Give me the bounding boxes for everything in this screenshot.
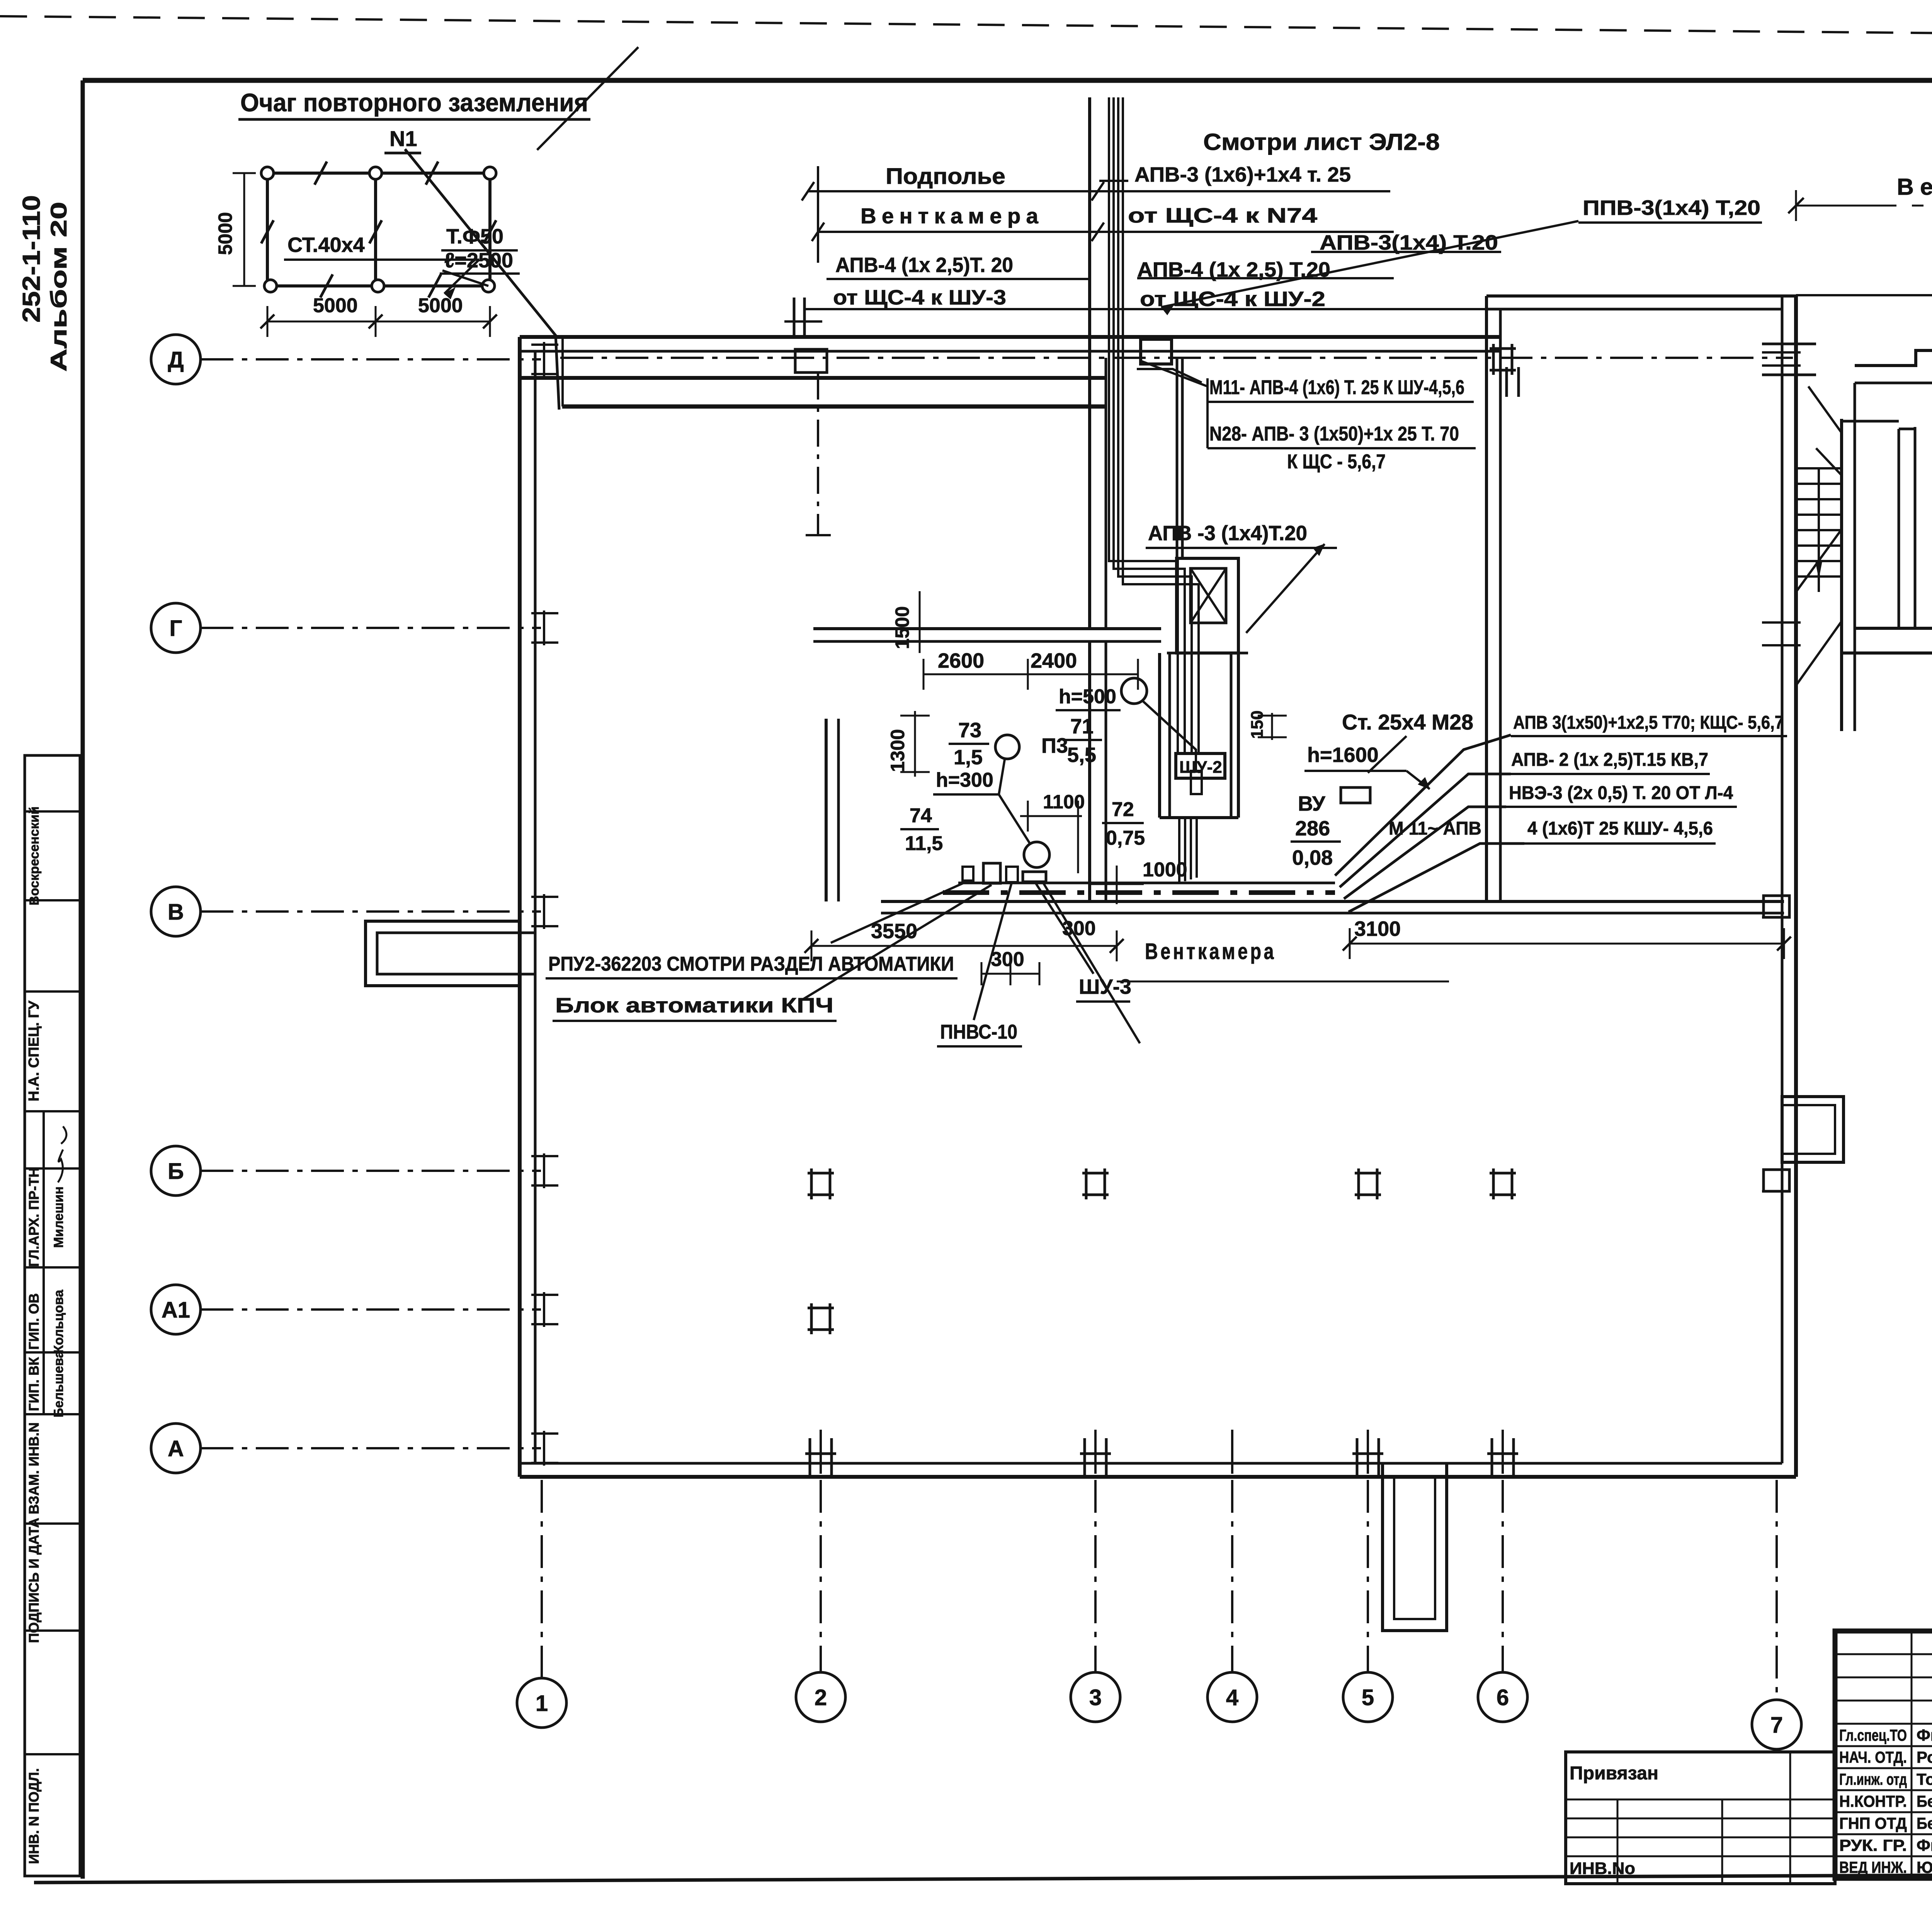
svg-text:3: 3 [1089,1685,1102,1710]
svg-text:Белокурова: Белокурова [1917,1792,1932,1810]
grid line x=1402 [541,1480,543,1678]
svg-text:ШУ-3: ШУ-3 [1079,975,1131,998]
svg-text:300: 300 [991,948,1024,971]
grid line y=3030 [201,1170,541,1172]
vertical dimension 5000 [243,173,245,286]
diagonal feeder bundle to labels [1335,735,1511,876]
leaders to labels [831,881,968,943]
svg-text:Филин: Филин [1917,1726,1932,1744]
centre south wall [881,900,1784,903]
svg-text:Торгашов: Торгашов [1917,1770,1932,1788]
svg-text:НВЭ-3 (2х 0,5) Т. 20 ОТ Л-4: НВЭ-3 (2х 0,5) Т. 20 ОТ Л-4 [1509,783,1733,803]
left margin signatures [58,1126,66,1182]
svg-text:ВЗАМ. ИНВ.N: ВЗАМ. ИНВ.N [26,1422,42,1514]
left margin inner divider [43,1111,45,1414]
left wall inner face [534,351,537,1463]
grid line x=3889 [1502,1480,1504,1672]
right wall outer face [1794,295,1798,1477]
grid axis circle 5 [1343,1672,1393,1722]
svg-text:Д: Д [168,347,184,372]
svg-text:ГЛ.АРХ. ПР-ТН: ГЛ.АРХ. ПР-ТН [26,1167,42,1267]
svg-text:Очаг повторного заземления: Очаг повторного заземления [240,88,588,117]
svg-text:от ЩС-4 к ШУ-3: от ЩС-4 к ШУ-3 [833,286,1006,309]
dim slash ticks [802,182,814,201]
svg-text:РПУ2-362203 СМОТРИ РАЗДЕЛ АВТ: РПУ2-362203 СМОТРИ РАЗДЕЛ АВТОМАТИКИ [548,953,954,975]
stamp thin top rows [1835,1653,1932,1655]
grid line y=1625 [201,627,541,629]
riser bundle lower part with jog [1109,358,1178,753]
bottom dimension line [267,321,490,323]
pit below bottom wall [1383,1463,1447,1631]
grid line x=3540 [1367,1480,1369,1672]
svg-text:6: 6 [1497,1685,1509,1710]
column Д6 [1490,344,1516,375]
grid line y=2359 [201,910,541,913]
top wall inner line [520,350,1500,353]
svg-text:ПОДПИСЬ И ДАТА: ПОДПИСЬ И ДАТА [26,1518,42,1643]
svg-text:Милешин: Милешин [51,1186,66,1248]
room top wall outer [1855,350,1932,366]
feeder underline R2 [1509,773,1710,775]
svg-text:ПНВС-10: ПНВС-10 [940,1021,1017,1043]
door swing leaders [1808,386,1842,433]
svg-text:П3: П3 [1041,734,1068,757]
svg-text:3550: 3550 [871,920,917,943]
room bottom thick wall [1855,627,1932,630]
conductor break slashes [315,162,327,185]
svg-text:1300: 1300 [887,729,908,772]
grid axis circle 7 [1752,1700,1801,1749]
svg-text:Рощин: Рощин [1917,1748,1932,1766]
leader М11 to bundle [1142,361,1207,386]
svg-text:от ЩС-4 к N74: от ЩС-4 к N74 [1128,204,1317,227]
label bracket line [1206,378,1209,448]
svg-text:0,75: 0,75 [1106,827,1145,849]
column at riser/wall crossing [1141,339,1172,364]
stair step [1796,575,1842,578]
frame bottom border [34,1872,1932,1883]
svg-text:Блок автоматики КПЧ: Блок автоматики КПЧ [555,994,833,1017]
svg-text:Воскресенский: Воскресенский [27,806,42,905]
corridor south line [562,405,1106,409]
feeder underline R1 [1511,735,1787,737]
feeder underline R3 [1506,806,1737,808]
svg-text:72: 72 [1112,798,1134,821]
svg-text:5,5: 5,5 [1067,743,1096,767]
ground conductor second line [561,337,564,406]
leader ППВ-3 to riser [1161,221,1578,307]
grid line x=4598 [1776,1480,1778,1700]
grid axis circle 2 [796,1672,845,1722]
svg-text:ГНП ОТД: ГНП ОТД [1839,1814,1907,1832]
bottom wall outer face [520,1475,1796,1479]
svg-text:N28- АПВ- 3 (1х50)+1х 25 Т. 70: N28- АПВ- 3 (1х50)+1х 25 Т. 70 [1209,423,1459,445]
grid line y=930 [201,358,541,361]
duct stub above Д wall [793,298,796,337]
svg-text:h=300: h=300 [936,769,993,791]
svg-text:252-1-110: 252-1-110 [17,195,45,323]
stair rail [1818,468,1820,592]
bottom wall pier [1487,1452,1518,1455]
grid axis circle 6 [1478,1672,1527,1722]
underline АПВ-3 1x4 [1311,251,1501,253]
frame left border [81,80,85,1879]
underline АПВ-3 mid [1146,547,1337,549]
grid axis circle А1 [151,1285,201,1334]
lamp leader [1142,700,1196,773]
bottom wall pier [1352,1452,1383,1455]
grounding title underline [238,118,590,121]
west wall of right venkamera [1485,296,1488,901]
svg-text:Ст. 25х4 М28: Ст. 25х4 М28 [1342,710,1473,734]
left annex room walls [366,921,520,986]
svg-text:Привязан: Привязан [1570,1763,1658,1784]
piers on right-block left wall [1762,351,1801,354]
column grid Б [808,1168,834,1199]
underline ППВ-3 [1578,221,1762,224]
svg-text:М11- АПВ-4 (1х6) Т. 25 К ШУ-4: М11- АПВ-4 (1х6) Т. 25 К ШУ-4,5,6 [1209,376,1464,399]
СТ riser stub [1505,367,1508,397]
svg-text:74: 74 [910,804,932,827]
stair step [1796,544,1842,547]
T.F50 leader [442,270,488,286]
svg-text:Н.КОНТР.: Н.КОНТР. [1839,1792,1907,1810]
stair step [1796,529,1842,531]
central wall lower continuation [1088,641,1091,901]
small device under lamp [1191,771,1202,794]
svg-text:73: 73 [958,719,981,742]
svg-text:N1: N1 [389,126,417,151]
top right venkamera dimension [1796,205,1932,207]
column grid А1 [808,1303,834,1334]
underline АПВ-4 right [1137,277,1394,279]
svg-text:Гл.спец.ТО: Гл.спец.ТО [1839,1726,1907,1744]
svg-text:Кольцова: Кольцова [51,1289,66,1353]
grid stub above wall [1231,1430,1233,1474]
svg-text:11,5: 11,5 [905,832,943,855]
svg-text:h=500: h=500 [1059,685,1116,708]
stair lower break line [1796,621,1842,685]
long underline row ШУ [804,308,1486,310]
ВУ fraction bar [1291,840,1341,843]
grid stub above wall [1367,1430,1369,1474]
svg-text:7: 7 [1770,1713,1783,1738]
ground conductor diagonal to building corner [405,149,559,410]
frame top border [83,78,1932,83]
leader from Ст.25х4 [1368,736,1406,773]
svg-text:4 (1х6)Т 25 КШУ- 4,5,6: 4 (1х6)Т 25 КШУ- 4,5,6 [1527,818,1713,839]
elevator shaft [1177,558,1238,653]
upper right room walls [1486,294,1796,298]
grid stub above wall [820,1430,822,1474]
feeder underline R4 [1524,842,1716,845]
svg-text:Подполье: Подполье [886,164,1005,189]
column grid Б [1082,1168,1109,1199]
grid stub above wall [1094,1430,1097,1474]
main cable bus dash-dot thick [943,890,1335,895]
svg-text:ИНВ.No: ИНВ.No [1570,1859,1635,1878]
stair step [1796,514,1842,516]
svg-text:5: 5 [1362,1685,1374,1710]
svg-text:Бельшева: Бельшева [51,1350,66,1418]
stamp name rows [1835,1745,1932,1747]
svg-text:2600: 2600 [938,649,984,672]
dim line below venkamera [1117,981,1449,983]
svg-text:Венткамера: Венткамера [1145,939,1276,964]
room top wall inner [1855,382,1932,384]
wall under elevator block [813,627,1161,630]
grounding loop wires [267,172,490,175]
svg-text:2400: 2400 [1031,649,1077,672]
grid line y=3389 [201,1308,541,1311]
left margin stamp table [25,755,80,1876]
svg-text:В: В [168,900,184,925]
svg-text:Г: Г [170,616,182,641]
top wall inner face [520,376,1106,380]
cable bundle down from ШУ-2 [1178,818,1180,883]
right block top line [1796,294,1932,296]
column grid Б [1490,1168,1516,1199]
svg-text:4: 4 [1226,1685,1238,1710]
svg-text:1,5: 1,5 [954,746,983,769]
underline М11 [1207,401,1474,403]
svg-text:3100: 3100 [1354,917,1401,940]
svg-text:ГИП. ОВ: ГИП. ОВ [26,1293,42,1350]
bundle tick [1099,180,1128,182]
svg-text:Смотри лист ЭЛ2-8: Смотри лист ЭЛ2-8 [1203,129,1440,155]
привязан box [1566,1752,1835,1884]
svg-text:Белокурова: Белокурова [1917,1814,1932,1832]
svg-text:ППВ-3(1х4) Т,20: ППВ-3(1х4) Т,20 [1583,196,1760,219]
svg-text:1500: 1500 [891,606,913,649]
bottom wall pier [805,1452,836,1455]
svg-text:ИНВ. N ПОДЛ.: ИНВ. N ПОДЛ. [26,1768,42,1864]
central vertical wall [1088,97,1091,629]
stair step [1796,560,1842,562]
svg-text:Венткамера: Венткамера [861,204,1044,228]
svg-text:1000: 1000 [1143,859,1187,881]
top wall outer face [520,335,1500,339]
sheet top perforation edge [0,16,1932,40]
svg-text:h=1600: h=1600 [1307,743,1379,767]
pier marks on right wall [1764,896,1789,917]
arrow to АПВ-3 mid label [1246,544,1325,633]
grid axis circle 3 [1071,1672,1120,1722]
svg-text:СТ.40х4: СТ.40х4 [287,233,365,257]
svg-text:А: А [168,1436,184,1461]
ground electrode nodes [261,167,274,179]
svg-text:Филатова: Филатова [1917,1836,1932,1854]
grid axis circle Б [151,1146,201,1196]
branch wires to upper-right room [1137,369,1202,383]
grid Д dash-dot inside plan [560,357,1793,359]
grid line x=2124 [820,1480,822,1672]
elevator shaft upper wall [1176,358,1179,558]
left wall outer face [518,337,522,1477]
wall box on right wall [1782,1097,1844,1162]
cable run line [958,882,1335,884]
CT40x4 leader line [284,259,479,261]
svg-text:1: 1 [536,1691,548,1716]
svg-text:5000: 5000 [313,294,358,317]
automation equipment boxes [963,867,973,881]
grid line ticks at wall [543,342,545,377]
stair step [1796,498,1842,500]
riser wire bundle from floor above [1108,97,1110,358]
dim 2600/2400 [923,673,1138,675]
svg-text:Альбом 20: Альбом 20 [46,202,71,372]
column at Д2 [795,349,827,372]
grid axis circle 1 [517,1678,566,1728]
grid axis circle Г [151,603,201,653]
svg-text:Н.А. СПЕЦ. ГУ: Н.А. СПЕЦ. ГУ [26,1000,42,1101]
stray diagonal line [537,47,638,150]
dimension extension lines for Подполье/Венткамера [817,166,819,263]
grid axis circle А [151,1423,201,1473]
svg-text:К ЩС - 5,6,7: К ЩС - 5,6,7 [1287,451,1386,473]
stair break line [1796,529,1842,592]
svg-text:Юдина: Юдина [1917,1858,1932,1876]
svg-text:5000: 5000 [214,212,236,255]
grid 2 interior stub [817,372,819,535]
svg-text:АПВ 3(1х50)+1х2,5 Т70; КЩС- 5,: АПВ 3(1х50)+1х2,5 Т70; КЩС- 5,6,7 [1513,713,1784,733]
ВУ device [1341,787,1370,803]
svg-text:286: 286 [1295,817,1330,840]
grid axis circle В [151,887,201,936]
svg-text:2: 2 [815,1685,827,1710]
stair step [1796,483,1842,485]
svg-text:300: 300 [1062,917,1096,940]
lamp circle 1 [1121,678,1147,704]
lamp circle 3 [1024,842,1049,867]
svg-text:Венткамера: Венткамера [1897,174,1932,200]
underline N28 [1207,447,1476,449]
lamp circle 2 [995,735,1019,759]
grid line y=3748 [201,1447,541,1449]
bottom wall pier [1080,1452,1111,1455]
svg-text:АПВ-4 (1х 2,5)Т. 20: АПВ-4 (1х 2,5)Т. 20 [835,253,1013,277]
grid line x=3189 [1231,1480,1233,1672]
room left wall / duct partition [1840,419,1843,731]
svg-text:НАЧ. ОТД.: НАЧ. ОТД. [1839,1748,1907,1766]
svg-text:АПВ-3 (1х6)+1х4 т. 25: АПВ-3 (1х6)+1х4 т. 25 [1134,163,1351,186]
title block outer [1835,1631,1932,1878]
svg-text:0,08: 0,08 [1292,846,1333,869]
grid axis circle Д [151,335,201,384]
svg-text:Гл.инж. отд: Гл.инж. отд [1839,1770,1907,1788]
svg-text:РУК. ГР.: РУК. ГР. [1839,1836,1907,1854]
grid stub above wall [1502,1430,1504,1474]
svg-text:АПВ -3 (1х4)Т.20: АПВ -3 (1х4)Т.20 [1148,522,1307,545]
grid axis circle 4 [1207,1672,1257,1722]
right wall inner face [1781,295,1784,1463]
room west wall [825,719,828,901]
svg-text:ВЕД ИНЖ.: ВЕД ИНЖ. [1839,1858,1907,1876]
underline АПВ-4 left [827,278,1091,280]
ШУ-2 closet [1158,653,1161,818]
svg-text:Б: Б [168,1159,184,1184]
svg-text:ГИП. ВК: ГИП. ВК [26,1357,42,1411]
stair step [1796,467,1842,469]
bottom wall inner face [520,1462,1782,1465]
long underline row 1 [808,190,1390,192]
svg-text:А1: А1 [162,1298,190,1323]
svg-text:71: 71 [1070,715,1094,738]
grid line x=2835 [1094,1480,1097,1672]
svg-text:ВУ: ВУ [1298,792,1326,815]
svg-text:М 11~ АПВ: М 11~ АПВ [1389,818,1481,839]
column grid Б [1355,1168,1381,1199]
long underline row 2 [818,231,1394,233]
svg-text:АПВ- 2 (1х 2,5)Т.15 КВ,7: АПВ- 2 (1х 2,5)Т.15 КВ,7 [1511,750,1708,770]
svg-text:5000: 5000 [418,294,463,317]
stamp col 1 [1911,1631,1913,1878]
